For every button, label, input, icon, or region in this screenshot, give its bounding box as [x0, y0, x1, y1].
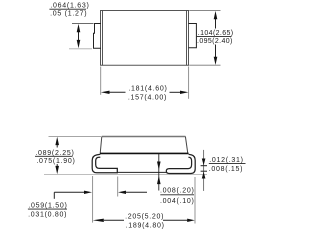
svg-text:.189(4.80): .189(4.80) — [126, 222, 165, 229]
svg-text:.095(2.40): .095(2.40) — [197, 38, 233, 45]
svg-text:.004(.10): .004(.10) — [160, 198, 195, 205]
svg-text:.031(0.80): .031(0.80) — [28, 212, 67, 219]
svg-text:.157(4.00): .157(4.00) — [128, 95, 167, 102]
svg-text:.008(.20): .008(.20) — [160, 188, 195, 195]
svg-text:.008(.15): .008(.15) — [209, 166, 244, 173]
svg-text:.059(1.50): .059(1.50) — [28, 203, 67, 210]
svg-text:.064(1.63): .064(1.63) — [50, 3, 89, 10]
svg-text:.05 (1.27): .05 (1.27) — [50, 11, 87, 18]
svg-text:.075(1.90): .075(1.90) — [36, 158, 75, 165]
svg-text:.205(5.20): .205(5.20) — [125, 214, 164, 221]
svg-text:.181(4.60): .181(4.60) — [128, 86, 167, 93]
svg-text:.012(.31): .012(.31) — [209, 157, 244, 164]
